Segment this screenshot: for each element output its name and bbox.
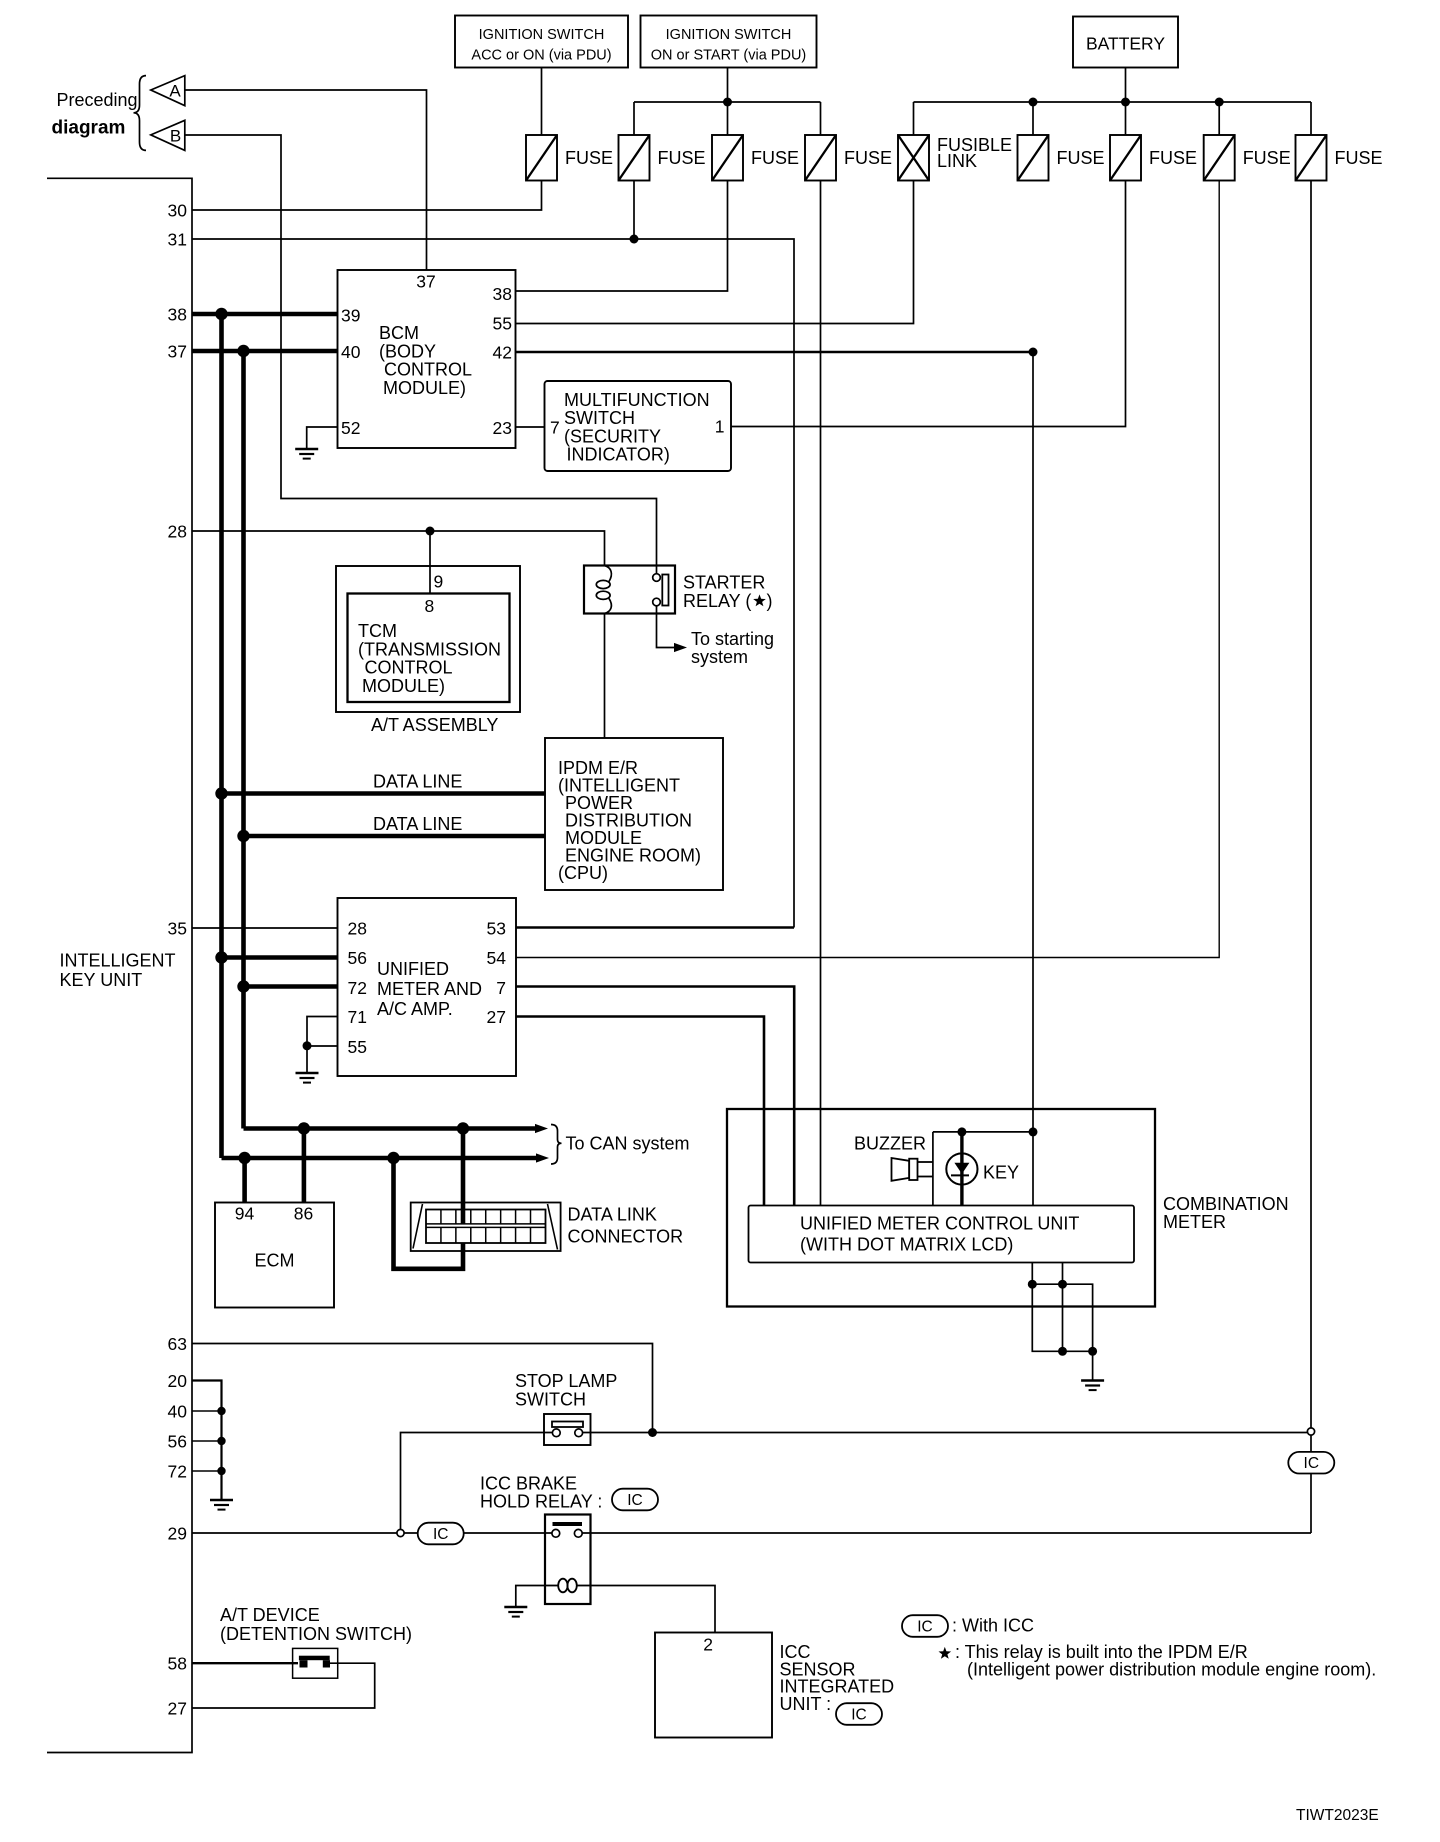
svg-text:9: 9 bbox=[434, 572, 444, 592]
svg-text:29: 29 bbox=[168, 1524, 187, 1544]
svg-text:FUSE: FUSE bbox=[844, 148, 892, 168]
junction dot data line CAN-L bbox=[237, 830, 249, 842]
svg-text:A: A bbox=[169, 81, 181, 100]
junction dot fuse F2 on pin 31 wire bbox=[630, 235, 639, 244]
BCM text label bbox=[379, 323, 472, 398]
starter relay coil bbox=[596, 580, 610, 588]
junction dot battery bus at fuse F5 bbox=[1029, 98, 1038, 107]
svg-text:23: 23 bbox=[493, 418, 512, 438]
svg-text:BUZZER: BUZZER bbox=[854, 1134, 926, 1154]
svg-text:DATA LINK: DATA LINK bbox=[568, 1205, 657, 1225]
junction dot pin 72 on CAN-L bbox=[237, 980, 249, 992]
combination meter box bbox=[727, 1109, 1155, 1307]
module TCM inner box bbox=[348, 594, 510, 703]
junction dot battery bus at fuse F7 bbox=[1215, 98, 1224, 107]
brace preceding diagram bbox=[134, 76, 147, 151]
module ICC sensor integrated unit box bbox=[655, 1633, 772, 1738]
svg-text:30: 30 bbox=[168, 201, 188, 221]
wire stop lamp switch output bbox=[583, 1432, 1308, 1434]
wire BCM pin 55 to fusible link bbox=[516, 181, 914, 324]
wire relay coil to ground bbox=[516, 1586, 545, 1608]
junction dot key LED branch bbox=[957, 1127, 966, 1136]
fuse F6 bbox=[1110, 135, 1141, 181]
wire pin 28 to starter relay coil bbox=[192, 531, 605, 566]
svg-text:FUSE: FUSE bbox=[565, 148, 613, 168]
svg-text:(CPU): (CPU) bbox=[558, 863, 608, 883]
svg-text:KEY UNIT: KEY UNIT bbox=[60, 970, 143, 990]
svg-text:55: 55 bbox=[348, 1037, 367, 1057]
fuse F1 bbox=[526, 135, 557, 181]
junction dot DLC upper branch bbox=[457, 1122, 469, 1134]
starter relay contact circles bbox=[653, 574, 661, 582]
junction dot ground lower C bbox=[1088, 1347, 1097, 1356]
svg-text:56: 56 bbox=[168, 1432, 187, 1452]
wire pin 20 to ground bbox=[192, 1381, 222, 1501]
svg-text:28: 28 bbox=[168, 522, 187, 542]
wire pin 56 stub bbox=[192, 1440, 222, 1442]
junction dot TCM branch bbox=[426, 527, 435, 536]
svg-text:(Intelligent power distributio: (Intelligent power distribution module e… bbox=[967, 1660, 1376, 1680]
svg-text:FUSE: FUSE bbox=[1149, 148, 1197, 168]
junction dot pin42/fuse5 riser bbox=[1029, 348, 1038, 357]
svg-text:ICC BRAKE: ICC BRAKE bbox=[480, 1474, 577, 1494]
wire meter ground tie bbox=[1032, 1284, 1092, 1351]
IPDM E/R text bbox=[558, 758, 701, 883]
wire CAN-L horizontal to CAN system bbox=[244, 1126, 536, 1131]
junction dot pin 56 on CAN-H bbox=[215, 951, 227, 963]
svg-text:27: 27 bbox=[487, 1007, 506, 1027]
wire pin 63 to stop lamp switch wire bbox=[192, 1344, 653, 1433]
wire fuse F8 riser bbox=[1310, 181, 1312, 1534]
svg-text:28: 28 bbox=[348, 919, 367, 939]
junction dot ground tie B bbox=[1058, 1280, 1067, 1289]
module unified meter and A/C amp box bbox=[338, 898, 517, 1076]
svg-text:FUSE: FUSE bbox=[1057, 148, 1105, 168]
svg-text:(TRANSMISSION: (TRANSMISSION bbox=[358, 639, 501, 659]
svg-text:72: 72 bbox=[348, 978, 367, 998]
svg-text:ACC or ON (via PDU): ACC or ON (via PDU) bbox=[471, 48, 611, 64]
svg-text:STOP LAMP: STOP LAMP bbox=[515, 1371, 617, 1391]
svg-text:TIWT2023E: TIWT2023E bbox=[1296, 1807, 1379, 1824]
label ICC SENSOR INTEGRATED UNIT bbox=[780, 1642, 895, 1714]
IC oval on fuse F8 riser bbox=[1288, 1452, 1334, 1474]
wire meter ground B bbox=[1062, 1263, 1064, 1352]
svg-text:37: 37 bbox=[168, 342, 187, 362]
svg-text:63: 63 bbox=[168, 1334, 187, 1354]
ground unified meter bbox=[296, 1072, 319, 1075]
wire pin 38 to BCM pin 39 (CAN-H) bbox=[192, 312, 338, 317]
wire battery down to bus bbox=[1125, 68, 1127, 103]
svg-text:CONTROL: CONTROL bbox=[384, 360, 472, 380]
wire to combination meter ground bbox=[1092, 1351, 1094, 1380]
ground ICC relay coil bbox=[504, 1606, 527, 1609]
junction dot pin 63 on stop lamp wire bbox=[648, 1428, 657, 1437]
wire CAN-H horizontal to CAN system bbox=[222, 1156, 537, 1161]
module IPDM E/R box bbox=[545, 738, 723, 890]
svg-text:DATA LINE: DATA LINE bbox=[373, 814, 462, 834]
svg-text:54: 54 bbox=[487, 948, 507, 968]
bus rail feeding fuses F2-F4 bbox=[634, 101, 821, 103]
junction dot meter ground node bbox=[303, 1041, 312, 1050]
fuse F7 bbox=[1204, 135, 1235, 181]
svg-text:ECM: ECM bbox=[255, 1251, 295, 1271]
wire pin 29 to ICC brake hold relay bbox=[192, 1532, 552, 1534]
svg-text:RELAY (: RELAY ( bbox=[683, 591, 751, 611]
wire meter pin 53 to pin31 riser bbox=[516, 926, 794, 929]
label DATA LINK CONNECTOR bbox=[568, 1205, 684, 1247]
wire B to starter relay contact bbox=[185, 135, 657, 574]
wire meter pin 72 stub bbox=[244, 984, 338, 989]
svg-text:42: 42 bbox=[493, 343, 512, 363]
unified meter control unit box bbox=[749, 1206, 1135, 1263]
IC oval after unit label bbox=[836, 1703, 882, 1725]
fusible link bbox=[898, 135, 929, 181]
svg-text:FUSE: FUSE bbox=[751, 148, 799, 168]
label ICC BRAKE HOLD RELAY bbox=[480, 1474, 602, 1512]
junction dot key/buzzer feed bbox=[1029, 1127, 1038, 1136]
svg-text:IC: IC bbox=[851, 1707, 867, 1724]
svg-text:Preceding: Preceding bbox=[57, 90, 138, 110]
starter relay box bbox=[584, 566, 675, 614]
svg-text:INDICATOR): INDICATOR) bbox=[567, 445, 670, 465]
svg-text:37: 37 bbox=[416, 272, 435, 292]
svg-text:55: 55 bbox=[493, 314, 512, 334]
svg-text:DATA LINE: DATA LINE bbox=[373, 772, 462, 792]
svg-text:diagram: diagram bbox=[52, 118, 126, 139]
wire meter pin 55 to ground node bbox=[307, 1045, 338, 1047]
battery bus rail fusible link to fuse F8 bbox=[914, 101, 1312, 103]
wire stop lamp switch feed bbox=[401, 1433, 553, 1534]
svg-text:2: 2 bbox=[703, 1635, 713, 1655]
svg-text:56: 56 bbox=[348, 948, 367, 968]
junction dot pin 56 bbox=[217, 1437, 225, 1445]
intelligent key unit boundary bbox=[47, 178, 192, 1752]
starter relay contact bar bbox=[662, 575, 668, 606]
svg-text:53: 53 bbox=[487, 919, 506, 939]
svg-text:COMBINATION: COMBINATION bbox=[1163, 1194, 1289, 1214]
svg-text:(DETENTION SWITCH): (DETENTION SWITCH) bbox=[220, 1624, 412, 1644]
arrow CAN-H bbox=[536, 1153, 549, 1162]
svg-text:FUSE: FUSE bbox=[658, 148, 706, 168]
data link connector symbol bbox=[411, 1203, 561, 1252]
svg-text:CONNECTOR: CONNECTOR bbox=[568, 1227, 684, 1247]
IC oval after hold relay label bbox=[612, 1489, 658, 1511]
wire branch to ECM pin 86 bbox=[302, 1129, 307, 1203]
junction dot ground tie A bbox=[1028, 1280, 1037, 1289]
buzzer symbol bbox=[892, 1158, 933, 1181]
label To starting system bbox=[691, 629, 774, 667]
svg-text:A/T DEVICE: A/T DEVICE bbox=[220, 1605, 320, 1625]
svg-text:40: 40 bbox=[341, 342, 361, 362]
svg-text:CONTROL: CONTROL bbox=[365, 658, 453, 678]
wire starter relay coil to IPDM E/R bbox=[604, 614, 606, 739]
unified meter text bbox=[377, 959, 482, 1019]
svg-text:METER AND: METER AND bbox=[377, 979, 482, 999]
junction dot CAN-L branch bbox=[237, 345, 249, 357]
wire meter pin 7 to meter control unit bbox=[516, 987, 794, 1206]
junction dot DLC lower branch bbox=[387, 1152, 399, 1164]
wire starter relay to starting system bbox=[657, 606, 684, 648]
svg-text:: With ICC: : With ICC bbox=[952, 1616, 1034, 1636]
fuse F4 bbox=[805, 135, 836, 181]
arrow CAN-L bbox=[535, 1124, 548, 1133]
wire branch to data link connector top bbox=[461, 1129, 466, 1224]
fuse F8 bbox=[1296, 135, 1327, 181]
wire fuse F2 down to pin 31 wire bbox=[633, 181, 635, 240]
arrow to starting system bbox=[674, 643, 687, 652]
ignition switch ON-or-START supply box bbox=[641, 16, 817, 68]
svg-text:MODULE): MODULE) bbox=[383, 378, 466, 398]
fuse F2 bbox=[619, 135, 650, 181]
svg-text:): ) bbox=[767, 591, 773, 611]
TCM text label bbox=[358, 621, 501, 696]
svg-text:METER: METER bbox=[1163, 1212, 1226, 1232]
svg-text:IC: IC bbox=[917, 1619, 933, 1636]
svg-text:52: 52 bbox=[341, 418, 360, 438]
svg-text:system: system bbox=[691, 647, 748, 667]
svg-text:38: 38 bbox=[493, 284, 512, 304]
svg-text:IGNITION SWITCH: IGNITION SWITCH bbox=[666, 27, 792, 43]
svg-text:(WITH DOT MATRIX LCD): (WITH DOT MATRIX LCD) bbox=[800, 1235, 1013, 1255]
battery box bbox=[1073, 17, 1178, 68]
wire pin 37 to BCM pin 40 (CAN-L) bbox=[192, 349, 338, 354]
junction dot data line CAN-H bbox=[215, 787, 227, 799]
wire branch to data link connector bottom bbox=[394, 1158, 464, 1269]
svg-text:To starting: To starting bbox=[691, 629, 774, 649]
wire ignition ACC to fuse F1 bbox=[541, 68, 543, 136]
svg-text:To CAN system: To CAN system bbox=[566, 1134, 690, 1154]
svg-text:TCM: TCM bbox=[358, 621, 397, 641]
wire CAN-H trunk vertical bbox=[219, 314, 224, 1158]
svg-text:FUSE: FUSE bbox=[1243, 148, 1291, 168]
svg-text:A/T ASSEMBLY: A/T ASSEMBLY bbox=[371, 715, 498, 735]
wire ignition ON/START down to bus bbox=[727, 68, 729, 103]
wire meter pin 27 to meter control unit bbox=[516, 1017, 764, 1206]
wire fuse F5 riser to meter control unit bbox=[1032, 352, 1034, 1206]
wire multifunction switch pin 1 to fuse F6 bbox=[731, 181, 1126, 427]
wire pin 72 stub bbox=[192, 1470, 222, 1472]
svg-text:BATTERY: BATTERY bbox=[1086, 34, 1165, 54]
wire BCM pin 38 to fuse F3 bbox=[516, 181, 728, 292]
fuse F5 bbox=[1018, 135, 1049, 181]
svg-text:38: 38 bbox=[168, 305, 187, 325]
svg-text:20: 20 bbox=[168, 1371, 188, 1391]
connector triangle B bbox=[151, 120, 185, 150]
label A/T DEVICE (DETENTION SWITCH) bbox=[220, 1605, 412, 1644]
svg-text:94: 94 bbox=[235, 1204, 255, 1224]
fuse F3 bbox=[712, 135, 743, 181]
brace To CAN system bbox=[551, 1125, 562, 1165]
svg-text:71: 71 bbox=[348, 1007, 367, 1027]
A/T assembly outer box bbox=[336, 566, 520, 712]
legend star bbox=[939, 1647, 952, 1659]
wire pin 30 to fuse F1 bbox=[192, 181, 542, 211]
svg-text:ON or START (via PDU): ON or START (via PDU) bbox=[651, 48, 807, 64]
svg-text:31: 31 bbox=[168, 230, 187, 250]
wire data line CAN-L to IPDM bbox=[244, 834, 546, 839]
wire data line CAN-H to IPDM bbox=[222, 791, 546, 796]
wire pin 31 to meter pin 53 riser bbox=[192, 239, 794, 928]
svg-text:BCM: BCM bbox=[379, 323, 419, 343]
svg-text:STARTER: STARTER bbox=[683, 573, 765, 593]
svg-text:27: 27 bbox=[168, 1699, 187, 1719]
svg-text:INTELLIGENT: INTELLIGENT bbox=[60, 951, 176, 971]
A/T device detention switch symbol bbox=[293, 1648, 338, 1678]
svg-text:IC: IC bbox=[1304, 1455, 1320, 1472]
label COMBINATION METER bbox=[1163, 1194, 1289, 1232]
connector circle on pin 29 wire bbox=[397, 1529, 404, 1536]
multifunction switch text bbox=[564, 390, 710, 465]
wire CAN-L trunk vertical bbox=[241, 351, 246, 1129]
svg-text:UNIT :: UNIT : bbox=[780, 1694, 832, 1714]
wire meter pin 56 stub bbox=[222, 955, 338, 960]
wire key LED vertical bbox=[960, 1132, 963, 1206]
svg-text:IGNITION SWITCH: IGNITION SWITCH bbox=[479, 27, 605, 43]
svg-text:72: 72 bbox=[168, 1462, 187, 1482]
wire meter pin 54 to fuse F7 bbox=[516, 181, 1219, 958]
svg-text:IC: IC bbox=[627, 1492, 643, 1509]
connector circle on fuse F8 riser bbox=[1307, 1428, 1314, 1435]
svg-text:FUSE: FUSE bbox=[1335, 148, 1383, 168]
svg-text:UNIFIED: UNIFIED bbox=[377, 959, 449, 979]
wire branch to TCM pin 9/8 bbox=[429, 531, 431, 594]
junction dot CAN-H branch bbox=[215, 308, 227, 320]
svg-text:SWITCH: SWITCH bbox=[515, 1390, 586, 1410]
svg-text:B: B bbox=[170, 127, 181, 146]
module BCM (body control module) bbox=[338, 270, 516, 448]
wire pin 40 stub bbox=[192, 1410, 222, 1412]
svg-text:MODULE): MODULE) bbox=[362, 676, 445, 696]
wire A to BCM pin 37 bbox=[185, 90, 427, 270]
svg-text:7: 7 bbox=[496, 978, 506, 998]
junction dot ignition bus bbox=[723, 98, 732, 107]
connector triangle A bbox=[151, 76, 185, 106]
wire meter pin 71 to ground node bbox=[307, 1017, 338, 1074]
junction dot ECM86 branch bbox=[298, 1122, 310, 1134]
svg-text:HOLD RELAY :: HOLD RELAY : bbox=[480, 1492, 602, 1512]
junction dot pin 72 bbox=[217, 1467, 225, 1475]
wire fuse F4 to meter control unit bbox=[820, 181, 822, 1206]
svg-text:8: 8 bbox=[425, 596, 435, 616]
svg-text:UNIFIED METER CONTROL UNIT: UNIFIED METER CONTROL UNIT bbox=[800, 1214, 1079, 1234]
ground combination meter bbox=[1081, 1379, 1104, 1382]
key LED symbol bbox=[946, 1153, 977, 1184]
svg-text:(SECURITY: (SECURITY bbox=[564, 426, 661, 446]
wire relay coil to ICC sensor pin 2 bbox=[591, 1586, 716, 1633]
stop lamp switch symbol bbox=[544, 1414, 591, 1445]
IC oval on pin 29 wire bbox=[418, 1523, 464, 1545]
svg-text:KEY: KEY bbox=[983, 1163, 1019, 1183]
wire BCM pin 52 to ground bbox=[307, 427, 338, 449]
multifunction switch (security indicator) box bbox=[545, 381, 732, 471]
legend IC oval bbox=[902, 1615, 948, 1637]
svg-text:MULTIFUNCTION: MULTIFUNCTION bbox=[564, 390, 710, 410]
wire key/buzzer feed rail bbox=[933, 1131, 1033, 1133]
wire BCM pin 23 to multifunction switch bbox=[516, 426, 545, 428]
wire BCM pin 42 to fuse F5 riser bbox=[516, 351, 1034, 354]
svg-text:1: 1 bbox=[715, 417, 725, 437]
label unified meter control unit bbox=[800, 1214, 1079, 1255]
starter relay label bbox=[683, 573, 773, 612]
junction dot battery bus at battery bbox=[1121, 98, 1130, 107]
wire ICC relay to fuse F8 riser bbox=[582, 1532, 1311, 1534]
svg-text:39: 39 bbox=[341, 306, 360, 326]
wire buzzer branch bbox=[932, 1132, 934, 1206]
label STOP LAMP SWITCH bbox=[515, 1371, 617, 1410]
wire meter ground A bbox=[1032, 1263, 1092, 1352]
ICC brake hold relay symbol bbox=[545, 1515, 591, 1605]
svg-text:IC: IC bbox=[433, 1526, 449, 1543]
ground BCM pin 52 bbox=[295, 448, 318, 451]
wire branch to ECM pin 94 bbox=[242, 1158, 247, 1203]
junction dot ECM94 branch bbox=[238, 1152, 250, 1164]
wire pin 35 to meter pin 28 bbox=[192, 927, 338, 929]
svg-text:35: 35 bbox=[168, 919, 187, 939]
svg-text:58: 58 bbox=[168, 1654, 187, 1674]
ground pin 20 group bbox=[210, 1499, 233, 1502]
module ECM box bbox=[215, 1203, 334, 1308]
junction dot ground lower B bbox=[1058, 1347, 1067, 1356]
svg-text:40: 40 bbox=[168, 1402, 188, 1422]
svg-text:7: 7 bbox=[550, 418, 560, 438]
junction dot pin 40 bbox=[217, 1407, 225, 1415]
ignition switch ACC-or-ON supply box bbox=[455, 16, 628, 68]
svg-text:(BODY: (BODY bbox=[379, 341, 436, 361]
svg-text:LINK: LINK bbox=[937, 151, 977, 171]
svg-text:86: 86 bbox=[294, 1204, 313, 1224]
wire detention switch return bbox=[192, 1663, 375, 1708]
svg-text:SWITCH: SWITCH bbox=[564, 408, 635, 428]
svg-text:A/C AMP.: A/C AMP. bbox=[377, 999, 453, 1019]
wire pin 58 to detention switch bbox=[192, 1662, 298, 1664]
